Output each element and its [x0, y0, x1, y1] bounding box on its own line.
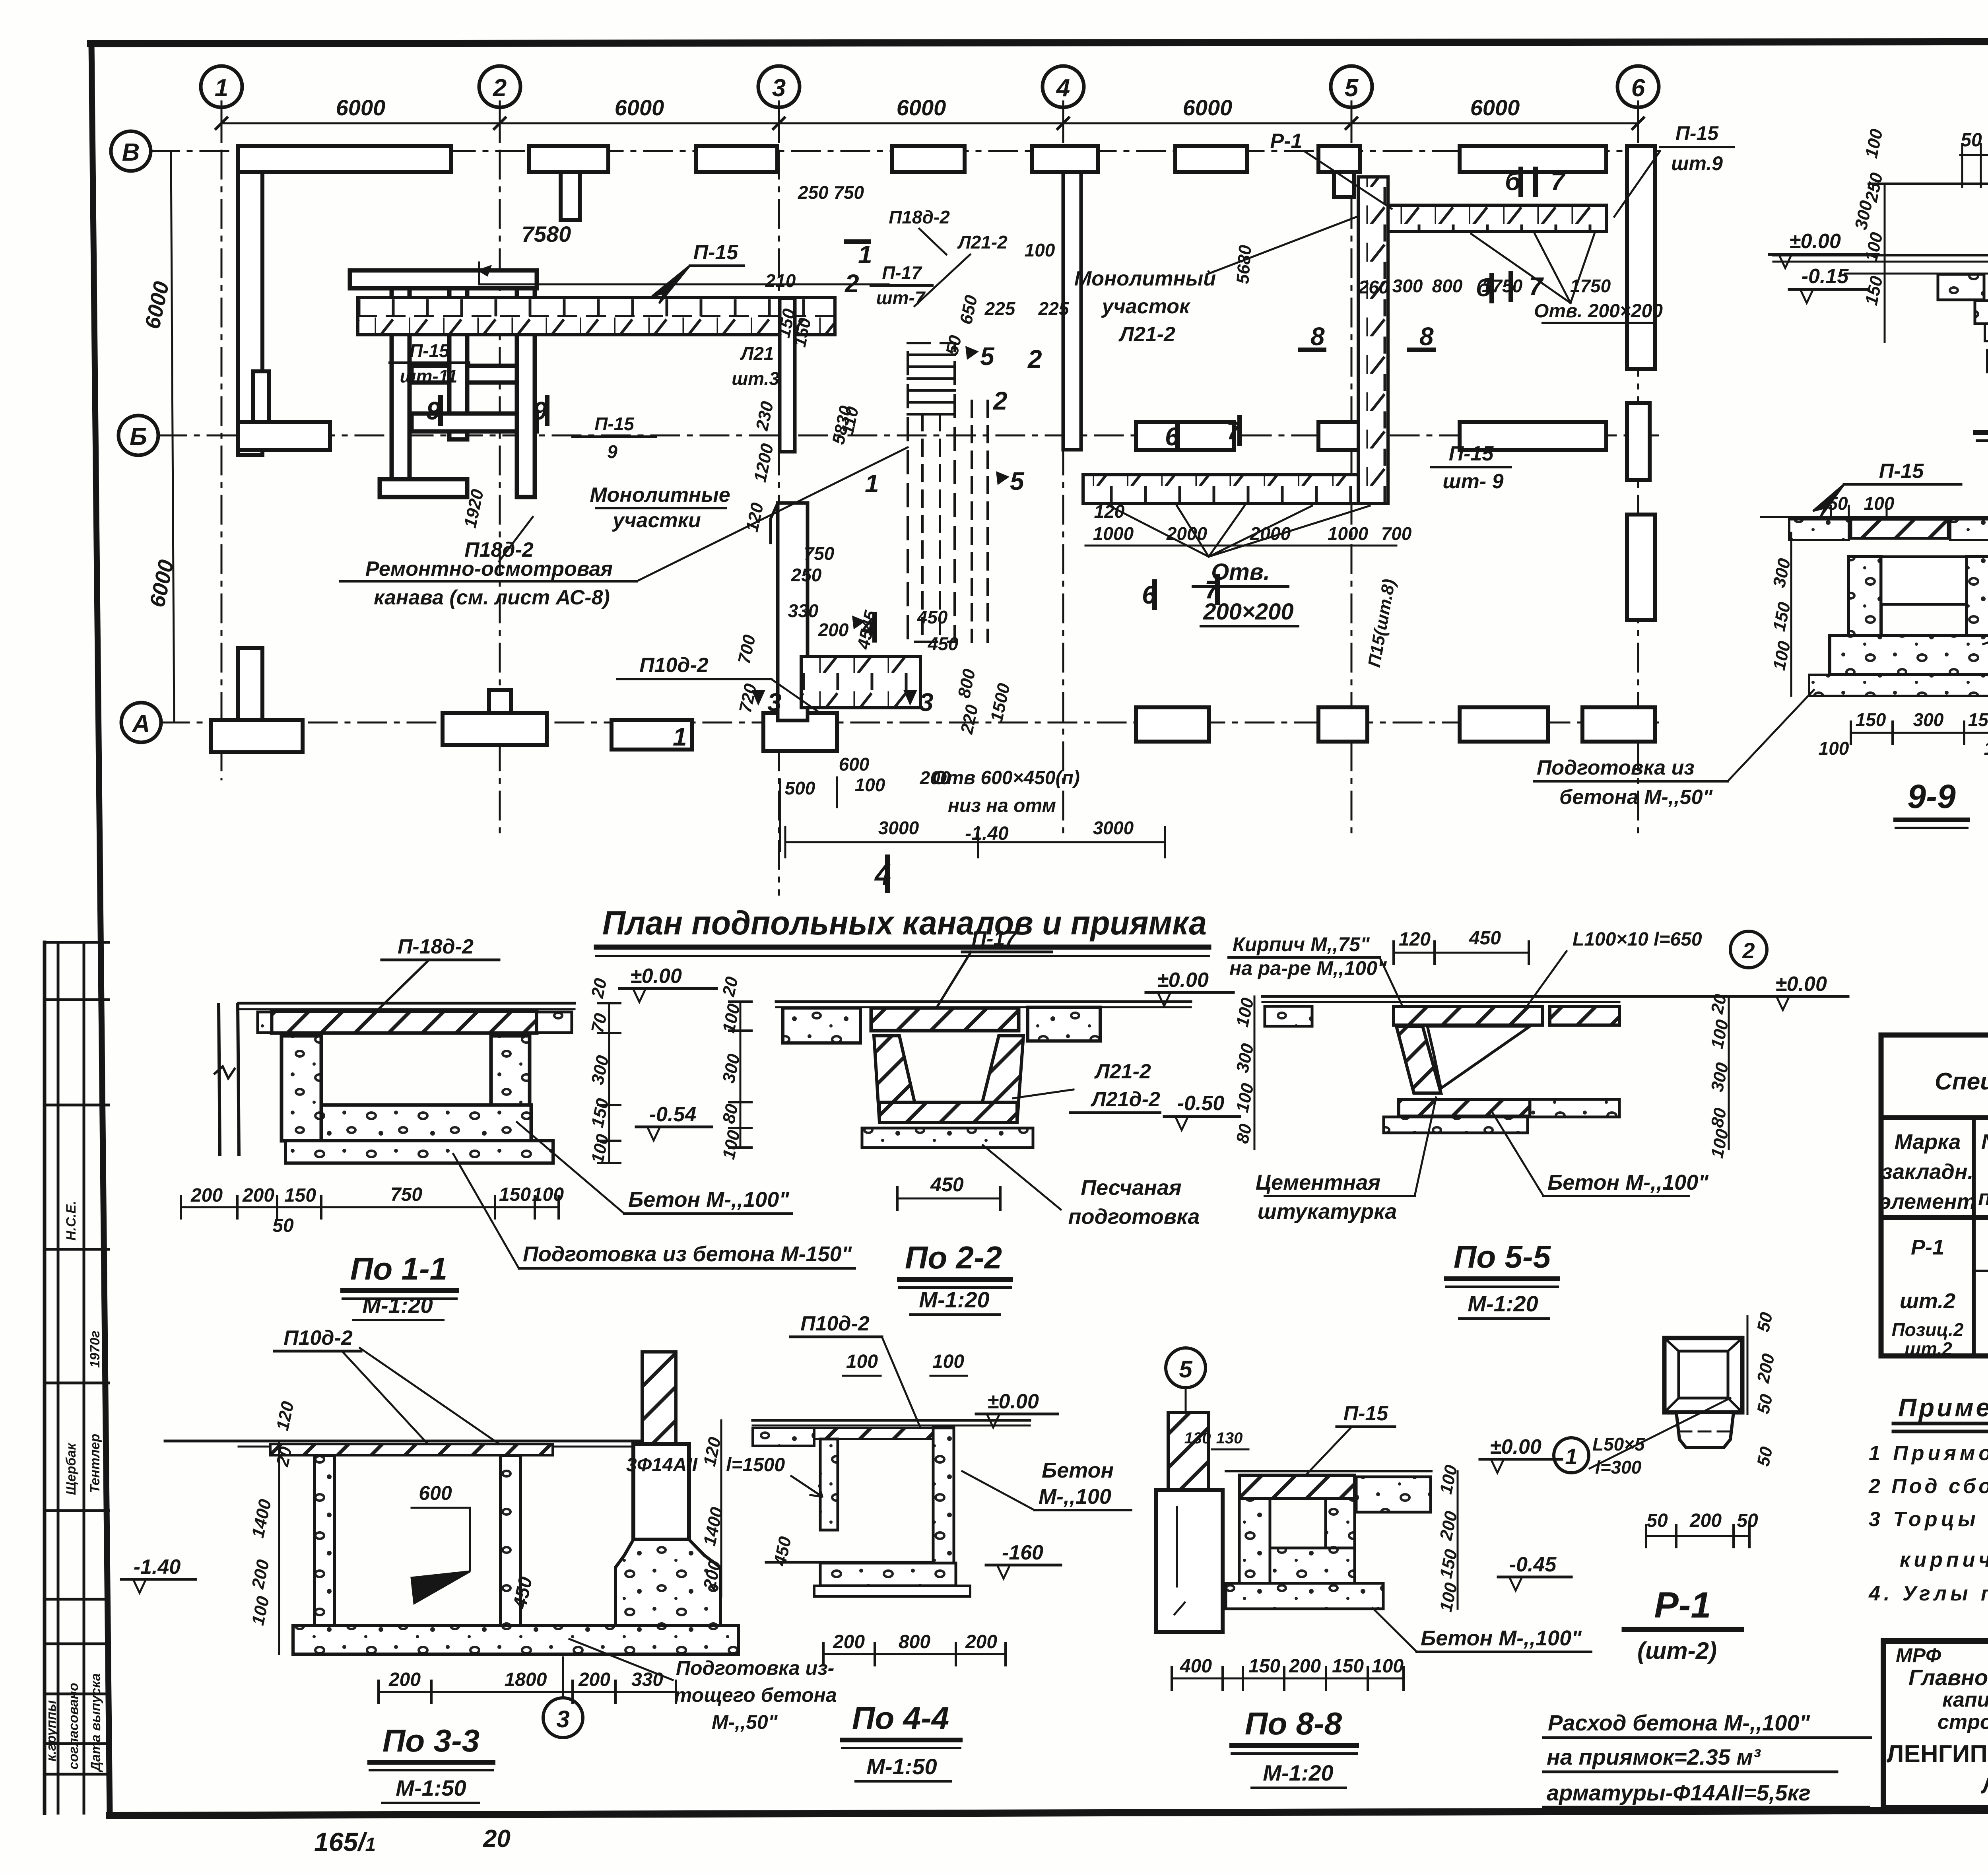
leaders [499, 151, 1594, 712]
svg-text:М-1:20: М-1:20 [1263, 1760, 1333, 1785]
svg-text:Б: Б [130, 423, 147, 451]
svg-text:130: 130 [1216, 1429, 1243, 1447]
svg-text:5680: 5680 [1233, 244, 1255, 285]
svg-text:100: 100 [532, 1184, 564, 1205]
svg-text:700: 700 [1381, 523, 1412, 544]
svg-text:П-15: П-15 [1343, 1402, 1389, 1425]
svg-text:±0.00: ±0.00 [630, 965, 682, 988]
svg-text:(шт-2): (шт-2) [1637, 1637, 1717, 1664]
svg-text:6000: 6000 [897, 95, 946, 120]
svg-text:Л21д-2: Л21д-2 [1090, 1088, 1160, 1111]
svg-text:7580: 7580 [522, 221, 571, 247]
svg-text:2: 2 [1027, 345, 1042, 373]
walls row A [211, 648, 1655, 752]
svg-text:3: 3 [772, 74, 786, 102]
svg-text:100: 100 [1025, 240, 1055, 260]
svg-text:150: 150 [1332, 1656, 1364, 1677]
svg-text:2: 2 [1742, 938, 1755, 963]
svg-text:50: 50 [942, 334, 965, 357]
svg-text:П10д-2: П10д-2 [283, 1326, 353, 1350]
svg-text:450: 450 [928, 633, 959, 654]
svg-text:2: 2 [993, 386, 1008, 415]
svg-text:М-,,50": М-,,50" [712, 1711, 778, 1733]
svg-text:Расход бетона М-,,100": Расход бетона М-,,100" [1548, 1710, 1810, 1735]
svg-text:3: 3 [767, 688, 782, 717]
svg-text:300: 300 [1913, 709, 1944, 730]
svg-text:800: 800 [954, 667, 979, 700]
svg-text:6000: 6000 [1183, 95, 1233, 120]
svg-text:150: 150 [1248, 1656, 1280, 1677]
svg-text:шт-11: шт-11 [400, 366, 458, 386]
svg-text:l=300: l=300 [1595, 1457, 1642, 1478]
svg-text:800: 800 [1432, 276, 1463, 296]
triangle flags for 3 marks [751, 346, 1010, 706]
concrete usage note [1547, 1710, 1811, 1805]
svg-text:1: 1 [673, 722, 687, 751]
svg-text:П10д-2: П10д-2 [800, 1312, 870, 1335]
svg-text:50: 50 [1753, 1392, 1776, 1416]
svg-text:1400: 1400 [700, 1505, 727, 1548]
svg-text:6000: 6000 [140, 280, 174, 331]
svg-text:Отв.: Отв. [1211, 559, 1270, 585]
svg-text:1: 1 [865, 469, 879, 498]
svg-text:500: 500 [785, 778, 815, 798]
svg-text:Ленинград: Ленинград [1980, 1773, 1988, 1798]
svg-text:700: 700 [734, 633, 759, 666]
svg-text:Ремонтно-осмотровая: Ремонтно-осмотровая [365, 557, 613, 581]
svg-text:230: 230 [752, 400, 778, 433]
svg-text:П18д-2: П18д-2 [889, 207, 950, 227]
svg-text:-1.40: -1.40 [965, 823, 1009, 844]
svg-text:Бетон М-,,100": Бетон М-,,100" [1547, 1171, 1709, 1194]
svg-text:100: 100 [1862, 127, 1887, 160]
svg-text:100: 100 [855, 775, 885, 795]
svg-text:1: 1 [1565, 1444, 1577, 1469]
svg-text:П10д-2: П10д-2 [639, 654, 709, 677]
svg-text:А: А [132, 710, 150, 738]
svg-text:4. Углы поворотов в подпо: 4. Углы поворотов в подпольных каналах с… [1868, 1582, 1988, 1605]
svg-text:1200: 1200 [750, 442, 777, 484]
svg-text:100: 100 [719, 1128, 744, 1161]
svg-text:330: 330 [631, 1669, 663, 1690]
svg-text:арматуры-Ф14АII=5,5кг: арматуры-Ф14АII=5,5кг [1547, 1780, 1811, 1805]
svg-text:6: 6 [1631, 74, 1645, 102]
svg-text:Л21-2: Л21-2 [957, 232, 1008, 252]
svg-text:650: 650 [956, 293, 981, 326]
svg-text:3Ф14АII: 3Ф14АII [626, 1455, 698, 1476]
svg-text:1400: 1400 [248, 1497, 275, 1540]
svg-text:5: 5 [980, 342, 995, 371]
svg-text:200: 200 [248, 1558, 274, 1591]
right rotated dims [608, 1003, 610, 1163]
svg-text:шт- 9: шт- 9 [1442, 470, 1503, 493]
svg-text:шт.2: шт.2 [1905, 1338, 1952, 1359]
svg-text:100: 100 [1372, 1656, 1404, 1677]
axis circles top [111, 66, 1659, 742]
svg-text:1000: 1000 [1328, 523, 1369, 544]
svg-text:М-1:20: М-1:20 [362, 1293, 433, 1318]
svg-text:220: 220 [957, 703, 982, 736]
svg-text:6000: 6000 [1470, 95, 1520, 120]
svg-text:7: 7 [1529, 272, 1544, 301]
svg-text:9-9: 9-9 [1907, 778, 1956, 815]
svg-text:П-15: П-15 [1879, 460, 1924, 483]
svg-text:участки: участки [612, 509, 701, 532]
grid dash-dot lines horizontal [151, 151, 1658, 722]
svg-text:Щербак: Щербак [64, 1443, 79, 1495]
left wall axis1 [238, 172, 262, 455]
svg-text:Р-1: Р-1 [1654, 1585, 1711, 1625]
svg-text:П-15: П-15 [410, 340, 450, 361]
wall axis4 down [1063, 172, 1081, 450]
svg-text:1500: 1500 [987, 682, 1014, 724]
svg-text:5: 5 [1179, 1356, 1193, 1383]
rotated dims left [1254, 996, 1256, 1149]
svg-text:канава (см. лист АС-8): канава (см. лист АС-8) [374, 586, 610, 609]
left rotated dims [1884, 184, 1886, 342]
svg-text:750: 750 [804, 543, 835, 564]
svg-text:±0.00: ±0.00 [1490, 1435, 1541, 1458]
svg-text:5: 5 [1345, 74, 1359, 102]
svg-text:Отв. 200×200: Отв. 200×200 [1534, 301, 1663, 322]
P-15 sht.9 label right of plan [1614, 122, 1734, 217]
svg-text:±0.00: ±0.00 [1789, 230, 1841, 253]
svg-text:По 4-4: По 4-4 [852, 1700, 949, 1736]
svg-text:50: 50 [272, 1215, 294, 1236]
svg-text:3000: 3000 [1093, 818, 1134, 838]
svg-text:6000: 6000 [615, 95, 664, 120]
underlines for labels [340, 266, 1656, 679]
svg-text:-0.50: -0.50 [1177, 1092, 1225, 1115]
bottom dim lines [780, 546, 1396, 857]
svg-text:L100×10 l=650: L100×10 l=650 [1573, 929, 1702, 950]
grid dash-dot lines vertical [221, 101, 1638, 895]
svg-text:20: 20 [588, 977, 611, 1000]
G-channel horizontal [1083, 475, 1358, 503]
svg-text:250: 250 [1862, 171, 1887, 204]
svg-text:П-15: П-15 [1675, 122, 1719, 144]
svg-text:5: 5 [1010, 467, 1025, 495]
svg-text:Тентлер: Тентлер [87, 1434, 103, 1493]
plan texts [400, 182, 1611, 838]
svg-text:кирпичом М-,,100"на растворе М: кирпичом М-,,100"на растворе М-,,50" [1900, 1548, 1988, 1571]
svg-text:4: 4 [1056, 74, 1070, 102]
svg-text:250 750: 250 750 [798, 182, 864, 203]
bottom connect channel [801, 656, 920, 708]
svg-text:П-17: П-17 [882, 262, 922, 283]
svg-text:МРФ: МРФ [1896, 1644, 1941, 1666]
bottom dims [1987, 360, 1988, 362]
repair pit dashed [908, 343, 988, 642]
walls row V [238, 146, 1655, 369]
svg-text:100: 100 [1862, 231, 1887, 264]
svg-text:1: 1 [215, 74, 228, 102]
svg-text:шт.3: шт.3 [732, 368, 779, 389]
svg-text:20: 20 [1707, 992, 1730, 1016]
vertical wall bar [780, 298, 795, 452]
svg-text:450: 450 [917, 607, 948, 627]
dims bottom [181, 1206, 559, 1208]
svg-text:Подготовка из-: Подготовка из- [676, 1657, 834, 1679]
svg-text:Дата выпуска: Дата выпуска [88, 1673, 103, 1773]
svg-text:100: 100 [1707, 1127, 1732, 1160]
svg-text:20: 20 [273, 1445, 296, 1469]
svg-text:80: 80 [1233, 1122, 1256, 1146]
svg-text:200: 200 [965, 1631, 997, 1653]
svg-text:±0.00: ±0.00 [987, 1390, 1039, 1413]
svg-text:200: 200 [578, 1669, 610, 1690]
svg-text:300: 300 [1851, 199, 1876, 232]
svg-text:Л21-2: Л21-2 [1094, 1060, 1151, 1083]
svg-text:Позиц.2: Позиц.2 [1892, 1319, 1964, 1340]
svg-text:8: 8 [1419, 322, 1434, 351]
rotated dims right [1728, 996, 1730, 1149]
svg-text:По 2-2: По 2-2 [905, 1240, 1002, 1275]
svg-text:бетона М-,,50": бетона М-,,50" [1559, 786, 1713, 809]
svg-text:По 5-5: По 5-5 [1454, 1239, 1551, 1274]
svg-text:225: 225 [984, 298, 1016, 319]
svg-text:2: 2 [845, 269, 859, 298]
svg-text:7: 7 [1551, 167, 1566, 196]
svg-text:150: 150 [499, 1184, 531, 1205]
svg-text:Бетон М-,,100": Бетон М-,,100" [1421, 1626, 1582, 1650]
svg-text:150: 150 [284, 1185, 316, 1206]
svg-text:Кирпич М,,75": Кирпич М,,75" [1233, 933, 1370, 955]
svg-text:200: 200 [190, 1185, 223, 1206]
svg-text:элемент: элемент [1879, 1190, 1976, 1214]
bottom dims [379, 1691, 676, 1693]
svg-text:9: 9 [607, 441, 617, 462]
svg-text:Спецификация стали на один: Спецификация стали на один закладной эле… [1935, 1068, 1988, 1095]
frame top [91, 41, 1988, 44]
channel band axes 5-6 [1375, 205, 1606, 231]
channel P-15 horizontal top [358, 297, 835, 335]
svg-text:М-1:50: М-1:50 [396, 1775, 466, 1800]
svg-text:50: 50 [1961, 130, 1982, 151]
svg-text:Р-1: Р-1 [1911, 1235, 1944, 1259]
svg-text:1 Приямок и монолитные канал: 1 Приямок и монолитные каналы выполнить … [1869, 1442, 1988, 1465]
svg-text:400: 400 [1180, 1656, 1212, 1677]
frame bottom [110, 1808, 1988, 1816]
svg-text:100: 100 [1819, 738, 1849, 759]
svg-text:1: 1 [858, 240, 872, 269]
svg-text:-160: -160 [1002, 1541, 1043, 1564]
svg-text:-0.54: -0.54 [649, 1103, 697, 1126]
svg-text:П-15: П-15 [1449, 442, 1494, 465]
floor [1869, 183, 1988, 185]
cluster rooms near axis 2 [350, 270, 537, 497]
svg-text:130: 130 [1184, 1429, 1211, 1447]
svg-text:3: 3 [556, 1706, 569, 1732]
svg-text:200: 200 [833, 1631, 865, 1653]
svg-text:П-18д-2: П-18д-2 [398, 935, 474, 958]
svg-text:100: 100 [248, 1594, 273, 1627]
svg-text:200: 200 [242, 1185, 274, 1206]
svg-text:Л21: Л21 [740, 343, 774, 364]
svg-text:Марка: Марка [1895, 1130, 1961, 1154]
svg-text:2 Под сборные каналы устра: 2 Под сборные каналы устраивается песчан… [1868, 1475, 1988, 1498]
svg-text:150: 150 [1862, 274, 1887, 307]
svg-text:250: 250 [791, 565, 822, 585]
svg-text:200: 200 [388, 1669, 421, 1690]
svg-text:Н.С.Е.: Н.С.Е. [64, 1201, 79, 1241]
svg-text:ЛЕНГИПРОРЕЧТРАНС: ЛЕНГИПРОРЕЧТРАНС [1887, 1740, 1988, 1768]
svg-text:120: 120 [1399, 929, 1431, 950]
svg-text:на приямок=2.35 м³: на приямок=2.35 м³ [1547, 1744, 1761, 1769]
left dimension line 6000 x2 [171, 151, 174, 722]
svg-text:тощего бетона: тощего бетона [674, 1684, 837, 1706]
svg-text:50: 50 [1646, 1510, 1668, 1531]
svg-text:6000: 6000 [336, 95, 386, 120]
vertical pit channel [778, 503, 808, 720]
svg-text:Подготовка из бетона М-150": Подготовка из бетона М-150" [523, 1242, 852, 1266]
broken wall at left [219, 1004, 220, 1155]
svg-text:70: 70 [588, 1012, 611, 1035]
dimension 7580 [479, 284, 889, 285]
svg-text:-0.15: -0.15 [1802, 265, 1849, 288]
right masonry and footing [642, 1352, 676, 1443]
svg-text:Р-1: Р-1 [1270, 130, 1303, 153]
svg-text:150: 150 [1856, 709, 1886, 730]
svg-text:штукатурка: штукатурка [1258, 1200, 1397, 1223]
svg-text:80: 80 [719, 1102, 742, 1126]
svg-text:П-17: П-17 [972, 927, 1017, 950]
svg-text:Отв 600×450(п): Отв 600×450(п) [932, 767, 1080, 788]
svg-text:поз: поз [1978, 1186, 1988, 1210]
G-channel vertical [1358, 177, 1388, 503]
svg-text:строительства: строительства [1938, 1711, 1988, 1734]
svg-text:20: 20 [719, 975, 742, 999]
svg-text:200: 200 [1753, 1352, 1779, 1385]
svg-text:-1.40: -1.40 [134, 1556, 181, 1579]
svg-text:210: 210 [765, 270, 796, 291]
svg-text:1000: 1000 [1093, 523, 1134, 544]
svg-text:2000: 2000 [1166, 523, 1208, 544]
svg-text:8: 8 [1310, 322, 1325, 351]
svg-text:Главное Управление: Главное Управление [1908, 1665, 1988, 1690]
svg-text:По 8-8: По 8-8 [1245, 1706, 1342, 1741]
svg-text:100: 100 [846, 1351, 878, 1372]
svg-text:3000: 3000 [878, 818, 919, 838]
svg-text:шт-7: шт-7 [876, 287, 926, 308]
svg-text:шт.9: шт.9 [1671, 152, 1723, 175]
svg-text:М-1:20: М-1:20 [1468, 1291, 1538, 1316]
svg-text:±0.00: ±0.00 [1157, 969, 1209, 992]
svg-text:участок: участок [1101, 295, 1191, 318]
svg-text:Л21-2: Л21-2 [1118, 323, 1175, 346]
svg-text:200: 200 [1289, 1656, 1321, 1677]
svg-text:М-1:20: М-1:20 [919, 1287, 989, 1312]
svg-text:согласовано: согласовано [66, 1683, 81, 1769]
svg-text:Цементная: Цементная [1256, 1171, 1380, 1194]
svg-text:3: 3 [919, 688, 934, 717]
svg-text:3 Торцы сборных железобетон: 3 Торцы сборных железобетонных каналов з… [1869, 1508, 1988, 1531]
frame left [91, 44, 110, 1814]
svg-text:100: 100 [932, 1351, 964, 1372]
svg-text:750: 750 [390, 1184, 422, 1205]
svg-text:Монолитные: Монолитные [590, 484, 730, 507]
left dims [278, 1441, 280, 1654]
svg-text:600: 600 [839, 754, 870, 775]
svg-text:20: 20 [483, 1825, 511, 1853]
svg-text:2: 2 [493, 74, 507, 102]
svg-text:По 3-3: По 3-3 [382, 1723, 480, 1758]
svg-text:закладн.: закладн. [1882, 1160, 1974, 1184]
svg-text:50: 50 [1737, 1510, 1758, 1531]
svg-text:-0.45: -0.45 [1509, 1553, 1557, 1576]
svg-text:Монолитный: Монолитный [1074, 267, 1216, 290]
svg-text:200: 200 [818, 619, 849, 640]
svg-text:200: 200 [1689, 1510, 1722, 1531]
svg-text:165/1: 165/1 [314, 1827, 376, 1857]
svg-text:В: В [122, 139, 140, 166]
left rotated dims [740, 1002, 742, 1148]
svg-text:330: 330 [788, 600, 819, 621]
top dimension line 6000 x5 [216, 107, 1644, 139]
svg-text:50: 50 [1753, 1311, 1776, 1334]
svg-text:100: 100 [1864, 493, 1895, 514]
svg-text:120: 120 [742, 501, 767, 534]
svg-text:капитального: капитального [1942, 1688, 1988, 1711]
svg-text:260: 260 [1358, 277, 1389, 297]
svg-text:l=1500: l=1500 [726, 1455, 785, 1476]
svg-text:По 1-1: По 1-1 [350, 1251, 447, 1286]
left floor at -0.15 [1773, 254, 1988, 256]
svg-text:М-,,100: М-,,100 [1039, 1485, 1111, 1509]
svg-text:Бетон М-,,100": Бетон М-,,100" [628, 1188, 790, 1212]
svg-text:Песчаная: Песчаная [1081, 1176, 1181, 1200]
svg-text:Примечания: Примечания [1898, 1393, 1988, 1422]
svg-text:80: 80 [1707, 1106, 1730, 1130]
rotated small dims [460, 244, 1399, 736]
svg-text:Подготовка из: Подготовка из [1537, 756, 1695, 779]
svg-text:низ на отм: низ на отм [948, 795, 1056, 816]
circled 3 [543, 1698, 583, 1738]
svg-text:800: 800 [899, 1631, 930, 1653]
svg-text:300: 300 [1392, 276, 1423, 296]
svg-text:П-15: П-15 [594, 414, 635, 434]
svg-text:450: 450 [1469, 928, 1501, 949]
svg-text:шт.2: шт.2 [1900, 1289, 1955, 1313]
svg-text:NN: NN [1981, 1130, 1988, 1154]
section cut marks [426, 167, 1566, 891]
svg-text:225: 225 [1038, 298, 1070, 319]
svg-text:М-1:50: М-1:50 [866, 1754, 937, 1779]
svg-text:50: 50 [1753, 1445, 1776, 1468]
svg-text:П-15: П-15 [693, 241, 739, 264]
svg-text:450: 450 [930, 1173, 964, 1196]
svg-text:на ра-ре М,,100": на ра-ре М,,100" [1229, 957, 1387, 979]
svg-text:150: 150 [1968, 709, 1988, 730]
svg-text:подготовка: подготовка [1068, 1205, 1200, 1229]
svg-text:120: 120 [273, 1400, 298, 1433]
svg-text:Бетон: Бетон [1042, 1458, 1114, 1482]
svg-text:±0.00: ±0.00 [1775, 973, 1827, 996]
svg-text:600: 600 [419, 1482, 452, 1504]
walls row B [238, 371, 1655, 620]
svg-text:к.группы: к.группы [44, 1700, 59, 1761]
svg-text:П15(шт.8): П15(шт.8) [1365, 577, 1399, 668]
svg-text:100: 100 [1984, 738, 1988, 759]
svg-text:1800: 1800 [505, 1669, 547, 1690]
svg-text:1970г: 1970г [87, 1330, 103, 1368]
svg-text:План подпольных каналов и прия: План подпольных каналов и приямка [602, 904, 1207, 942]
